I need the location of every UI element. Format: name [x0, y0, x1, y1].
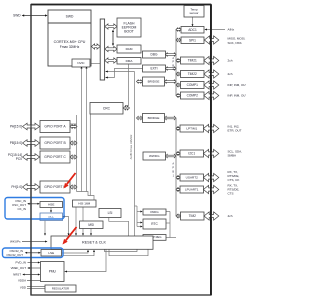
wire AHB feeder upper	[105, 71, 134, 73]
svg-text:RESET & CLK: RESET & CLK	[82, 241, 106, 245]
EXTI block	[143, 65, 166, 72]
svg-text:PLL: PLL	[48, 215, 54, 219]
GPIO PORT H block	[40, 181, 70, 193]
svg-text:INP, INM, OUT: INP, INM, OUT	[228, 94, 247, 98]
LPUART1 external arrow	[203, 185, 218, 193]
svg-text:I2C1: I2C1	[188, 152, 195, 156]
REGULATOR block	[45, 285, 76, 292]
svg-text:INP, INM, OUT: INP, INM, OUT	[228, 83, 247, 87]
PVD_IN arrow	[28, 262, 40, 264]
TIM22 block	[181, 71, 205, 78]
PMU block	[41, 262, 65, 282]
svg-text:SCK, NSS: SCK, NSS	[228, 41, 242, 45]
TIM21 block	[181, 57, 205, 64]
bridge1 right stub	[165, 80, 177, 83]
wire clock staircase	[77, 192, 95, 201]
VDD double line	[27, 286, 45, 288]
LPTIM1 bus stub	[176, 127, 180, 130]
LPTIM1 block	[180, 125, 204, 132]
svg-text:EXTI: EXTI	[150, 67, 157, 71]
GPIO PORT C block	[40, 151, 70, 163]
svg-text:NVIC: NVIC	[77, 61, 85, 65]
wire RCC to backup 2	[109, 242, 148, 256]
svg-text:VREF_OUT: VREF_OUT	[11, 266, 27, 270]
wire RTC right stub	[166, 222, 171, 224]
svg-text:DMA: DMA	[126, 59, 134, 63]
PLL block	[40, 213, 63, 221]
svg-text:DBG: DBG	[151, 53, 158, 57]
TIM22 bus stub	[176, 72, 181, 75]
port C bus stub	[70, 155, 77, 159]
LPUART1 bus stub	[176, 188, 180, 191]
port H pin arrow	[23, 184, 40, 191]
svg-text:ETR, OUT: ETR, OUT	[228, 129, 242, 133]
LSE highlight box	[3, 248, 64, 258]
svg-text:PC0: PC0	[16, 157, 22, 161]
SPI1 block	[181, 37, 204, 44]
bus matrix bar	[100, 19, 104, 80]
wire RTC arrow 2	[137, 226, 142, 228]
COMP2 bus stub	[176, 94, 181, 97]
svg-text:RAM: RAM	[126, 47, 133, 51]
svg-text:CTS: CTS	[228, 192, 234, 196]
svg-text:2ch: 2ch	[228, 72, 233, 76]
bus to DMA arrow	[105, 58, 117, 63]
wire IWDG arrow	[137, 211, 142, 213]
svg-text:sensor: sensor	[189, 11, 198, 15]
svg-text:2ch: 2ch	[228, 59, 233, 63]
svg-text:SPI1: SPI1	[189, 38, 196, 42]
port H bus stub	[70, 185, 77, 189]
svg-text:CTS, CK: CTS, CK	[228, 178, 240, 182]
COMP2 external arrow	[204, 91, 219, 99]
wire temp sensor to ADC	[192, 17, 194, 26]
svg-text:NRST: NRST	[13, 273, 21, 277]
DBG bus stub	[166, 53, 177, 56]
red annotation arrow at RESET CLK	[66, 227, 77, 240]
svg-text:GPIO PORT B: GPIO PORT B	[44, 141, 66, 145]
COMP1 bus stub	[176, 83, 181, 86]
TIM2 block	[181, 212, 205, 220]
USART2 bus stub	[176, 176, 180, 179]
svg-text:TIM2: TIM2	[189, 214, 196, 218]
svg-text:ADC1: ADC1	[188, 28, 197, 32]
wire MSI down	[90, 229, 92, 236]
LPUART1 block	[180, 186, 204, 193]
svg-text:P: P	[172, 166, 174, 170]
svg-text:PB[15:0]: PB[15:0]	[10, 141, 22, 145]
svg-text:CRC: CRC	[103, 106, 111, 110]
FLASH-RAM vertical arrow	[112, 31, 114, 46]
IWDG block	[143, 209, 166, 215]
RESET and CLK block	[51, 236, 153, 249]
SPI1 external arrow	[204, 36, 218, 44]
wire RCC to backup 1	[105, 242, 138, 252]
wire bar to EXTI	[105, 69, 142, 78]
wire DMA drop to CRC	[125, 64, 129, 105]
svg-text:PVD_IN: PVD_IN	[16, 261, 26, 265]
svg-text:MSI: MSI	[88, 223, 94, 227]
svg-text:SWD: SWD	[13, 14, 21, 18]
TIM2 bus stub	[176, 214, 181, 217]
APB1 bus line	[175, 118, 177, 216]
TIM21 bus stub	[176, 59, 181, 62]
VREF_OUT arrow	[29, 267, 41, 269]
wire EXTI-NVIC line 1	[81, 68, 83, 191]
svg-text:A: A	[172, 162, 174, 166]
APB2 bus line	[175, 30, 177, 96]
CPU block CORTEX-M0+	[48, 10, 91, 66]
SPI1 bus stub	[176, 38, 181, 41]
wire RTC arrow 1	[137, 222, 142, 224]
APB2 bridge block	[143, 77, 165, 86]
wire PLL feed from right	[63, 217, 69, 236]
wire IOPORT elbow	[70, 123, 77, 125]
svg-text:LSI: LSI	[108, 211, 113, 215]
wire NVIC to bus matrix	[90, 63, 100, 65]
COMP1 block	[181, 82, 205, 89]
CRC block	[90, 103, 123, 115]
bus to RAM arrow	[105, 46, 117, 51]
svg-text:HSI 16M: HSI 16M	[78, 202, 90, 206]
svg-text:LPTIM1: LPTIM1	[186, 127, 197, 131]
svg-text:VDD: VDD	[20, 286, 26, 290]
VDDA line	[27, 280, 41, 282]
bridge2 right stub	[165, 116, 177, 119]
WKUPx arrow	[22, 241, 46, 243]
svg-text:SMBA: SMBA	[228, 154, 237, 158]
svg-text:COMP1: COMP1	[187, 83, 199, 87]
NRST bidirectional arrow	[24, 274, 40, 276]
FLASH EEPROM BOOT block	[117, 18, 141, 37]
port A bus stub	[70, 125, 77, 129]
wire LSE riser 2	[63, 250, 94, 255]
svg-text:TIM21: TIM21	[188, 59, 197, 63]
svg-text:AHB Fmax 32MHz: AHB Fmax 32MHz	[129, 134, 133, 159]
HSE block	[40, 202, 63, 208]
svg-text:WKUPx: WKUPx	[10, 240, 21, 244]
svg-text:RTC: RTC	[151, 222, 158, 226]
wire AHB vertical main	[134, 72, 136, 237]
svg-text:OSC32_OUT: OSC32_OUT	[6, 253, 23, 257]
svg-text:AINx: AINx	[228, 28, 235, 32]
ADC1 bus stub	[176, 28, 181, 31]
svg-text:WWDG: WWDG	[149, 154, 160, 158]
svg-text:BRIDGE: BRIDGE	[148, 80, 160, 84]
svg-text:P: P	[172, 60, 174, 64]
svg-text:CORTEX-M0+ CPU: CORTEX-M0+ CPU	[54, 40, 86, 44]
wire IWDG RTC feed vertical	[136, 206, 138, 227]
svg-text:REGULATOR: REGULATOR	[52, 287, 69, 291]
WWDG block	[143, 152, 166, 160]
svg-text:PH[1:0]: PH[1:0]	[11, 185, 22, 189]
svg-text:HSE: HSE	[48, 203, 54, 207]
WWDG bus stub	[166, 154, 177, 157]
GPIO PORT B block	[40, 137, 70, 149]
bridge2 left stub	[137, 116, 143, 119]
EXTI bus stub	[166, 67, 177, 70]
TIM2 external arrow	[204, 212, 219, 220]
svg-text:GPIO PORT H: GPIO PORT H	[44, 185, 66, 189]
wire AIN into ADC	[205, 29, 225, 31]
OSC32 bidirectional arrow	[26, 252, 40, 254]
svg-text:BRIDGE: BRIDGE	[148, 116, 160, 120]
port A pin arrow	[23, 123, 40, 130]
wire RCC to PMU	[65, 249, 107, 271]
wire CRC down to HSI	[89, 114, 91, 196]
svg-text:VDDA: VDDA	[18, 279, 26, 283]
svg-text:1: 1	[173, 174, 175, 178]
NVIC block	[72, 59, 90, 67]
USART2 block	[180, 174, 204, 181]
HSI 16M block	[73, 200, 97, 207]
svg-text:IWDG: IWDG	[150, 210, 159, 214]
svg-text:A: A	[172, 56, 174, 60]
wire EXTI-NVIC line 2	[86, 68, 88, 191]
svg-text:SWD: SWD	[66, 15, 74, 19]
wire backup right vertical	[169, 212, 171, 238]
COMP2 block	[181, 92, 205, 99]
svg-text:CK_IN: CK_IN	[17, 207, 26, 211]
LSE block	[41, 250, 62, 257]
svg-text:TIM22: TIM22	[188, 72, 197, 76]
GPIO PORT A block	[40, 121, 70, 133]
I2C1 block	[180, 150, 204, 157]
SWD bidirectional arrow	[24, 15, 47, 17]
wire HSI down 2	[82, 207, 84, 235]
CRC right stub arrow	[123, 106, 129, 110]
svg-text:B: B	[172, 63, 174, 67]
I2C1 bus stub	[176, 152, 180, 155]
outer border right edge overdraw	[210, 5, 212, 296]
svg-text:GPIO PORT A: GPIO PORT A	[44, 125, 66, 129]
outer border left edge overdraw	[30, 5, 32, 296]
COMP1 external arrow	[204, 81, 219, 89]
BKUP REG block	[143, 235, 166, 241]
svg-text:LSE: LSE	[48, 251, 54, 255]
OSC bidirectional arrow	[29, 203, 39, 205]
svg-text:USART2: USART2	[186, 176, 198, 180]
APB1 bridge block	[143, 114, 165, 123]
LPTIM1 external arrow	[203, 124, 218, 132]
port B bus stub	[70, 141, 77, 145]
outer chip border	[31, 5, 211, 296]
LSI block	[99, 209, 121, 218]
DBG block	[143, 51, 166, 58]
svg-text:Fmax 32MHz: Fmax 32MHz	[60, 45, 80, 49]
temp sensor block	[184, 6, 204, 18]
wire IWDG right stub	[166, 211, 171, 213]
wire IOPORT vertical	[76, 115, 78, 192]
bridge1 left stub	[137, 80, 143, 83]
red annotation arrow at GPIO PORT H	[67, 173, 76, 184]
I2C1 external arrow	[203, 149, 218, 157]
svg-text:COMP2: COMP2	[187, 94, 199, 98]
svg-text:PMU: PMU	[49, 270, 57, 274]
wire PLL down	[44, 221, 46, 236]
RAM block	[117, 45, 141, 53]
bus to FLASH arrow	[105, 24, 117, 29]
HSE to PLL arrow	[50, 208, 52, 213]
svg-text:B: B	[172, 170, 174, 174]
ADC1 block	[181, 27, 204, 34]
port C pin arrow	[23, 154, 40, 161]
TIM21 external arrow	[204, 56, 219, 64]
wire LSE riser 1	[62, 250, 88, 253]
svg-text:GPIO PORT C: GPIO PORT C	[44, 155, 66, 159]
CPU to bus arrow	[91, 44, 100, 49]
TIM22 external arrow	[204, 70, 219, 78]
DMA block	[117, 58, 141, 65]
svg-text:LPUART1: LPUART1	[185, 188, 199, 192]
wire BKUP right stub	[166, 237, 176, 239]
MSI block	[80, 221, 104, 229]
svg-text:BOOT: BOOT	[124, 30, 134, 34]
wire LSI feed	[109, 218, 129, 237]
svg-text:PA[15:0]: PA[15:0]	[10, 125, 22, 129]
RTC block	[143, 219, 166, 229]
HSE highlight box	[5, 198, 64, 220]
svg-text:4ch: 4ch	[228, 214, 233, 218]
wire HSI down 1	[75, 207, 77, 235]
USART2 external arrow	[203, 173, 218, 181]
port B pin arrow	[23, 140, 40, 147]
